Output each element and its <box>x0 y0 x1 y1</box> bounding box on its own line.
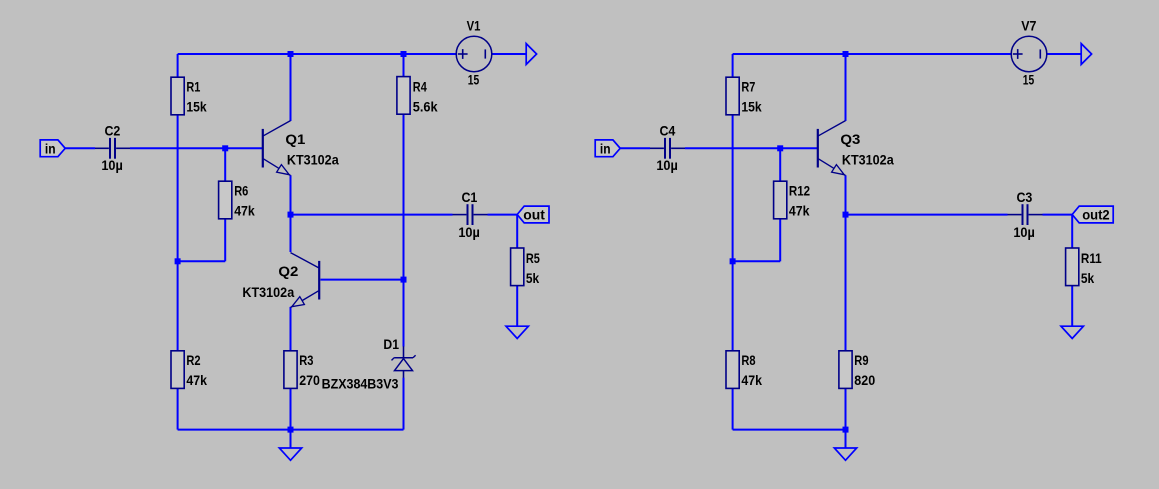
svg-text:47k: 47k <box>234 202 255 218</box>
svg-text:47k: 47k <box>789 202 810 218</box>
svg-text:10µ: 10µ <box>656 157 678 173</box>
svg-text:KT3102a: KT3102a <box>287 152 339 168</box>
svg-text:out2: out2 <box>1082 207 1110 223</box>
svg-text:Q3: Q3 <box>840 131 860 147</box>
svg-text:R12: R12 <box>789 182 810 198</box>
svg-text:R4: R4 <box>413 79 427 95</box>
svg-text:R3: R3 <box>299 352 313 368</box>
svg-text:15: 15 <box>468 72 480 88</box>
svg-text:R9: R9 <box>854 352 868 368</box>
svg-text:10µ: 10µ <box>101 157 123 173</box>
svg-text:10µ: 10µ <box>458 224 480 240</box>
svg-text:in: in <box>45 140 56 156</box>
svg-text:10µ: 10µ <box>1013 224 1035 240</box>
svg-text:R5: R5 <box>526 250 540 266</box>
svg-text:R7: R7 <box>741 79 755 95</box>
svg-text:270: 270 <box>299 372 320 388</box>
svg-text:15k: 15k <box>741 99 761 115</box>
svg-text:in: in <box>600 140 611 156</box>
svg-text:5.6k: 5.6k <box>413 99 438 115</box>
svg-text:47k: 47k <box>741 372 762 388</box>
svg-text:R2: R2 <box>186 352 200 368</box>
svg-text:C3: C3 <box>1016 189 1032 205</box>
svg-text:out: out <box>523 207 545 223</box>
svg-text:C4: C4 <box>659 122 675 138</box>
svg-text:KT3102a: KT3102a <box>842 152 894 168</box>
svg-text:C1: C1 <box>461 189 477 205</box>
svg-text:47k: 47k <box>186 372 207 388</box>
svg-text:15k: 15k <box>186 99 206 115</box>
svg-text:15: 15 <box>1023 72 1035 88</box>
svg-text:R8: R8 <box>741 352 755 368</box>
svg-text:KT3102a: KT3102a <box>242 284 294 300</box>
svg-text:R1: R1 <box>186 79 200 95</box>
svg-text:Q1: Q1 <box>285 131 305 147</box>
svg-text:C2: C2 <box>104 122 120 138</box>
svg-text:BZX384B3V3: BZX384B3V3 <box>322 375 399 391</box>
svg-text:V7: V7 <box>1021 17 1036 33</box>
svg-text:820: 820 <box>854 372 875 388</box>
svg-text:5k: 5k <box>1081 270 1094 286</box>
svg-text:Q2: Q2 <box>278 263 298 279</box>
svg-text:R6: R6 <box>234 182 248 198</box>
svg-text:V1: V1 <box>467 17 481 33</box>
svg-text:D1: D1 <box>383 336 399 352</box>
svg-text:5k: 5k <box>526 270 539 286</box>
svg-text:R11: R11 <box>1081 250 1102 266</box>
